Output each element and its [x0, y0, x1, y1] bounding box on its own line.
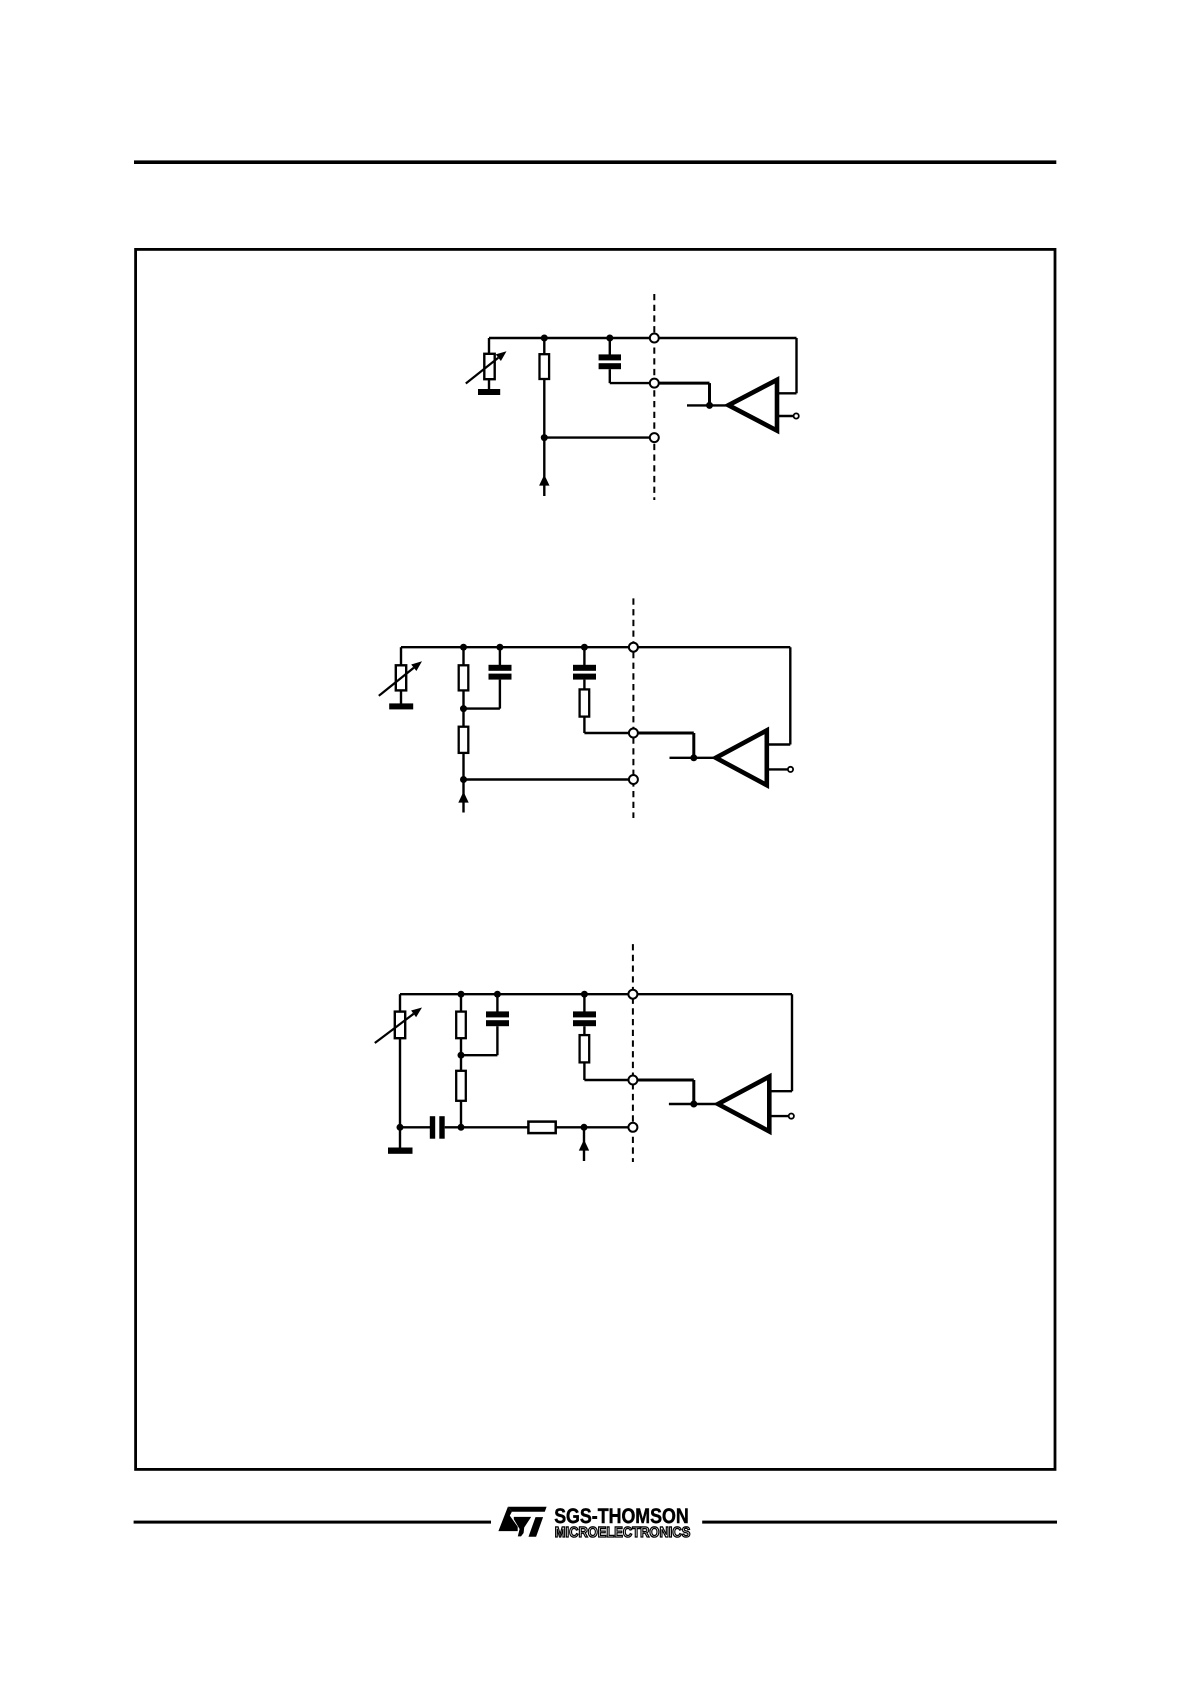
output terminal (circuit 2)	[788, 767, 793, 772]
inverter U2	[716, 730, 767, 785]
resistor R3	[459, 709, 469, 753]
pin 2 (circuit 1 inverter in)	[650, 379, 659, 388]
wire: inverter input stub (circuit 3)	[669, 1103, 718, 1105]
wire: inverter input stub (circuit 2)	[670, 757, 716, 759]
wire: circuit-3 top supply rail	[400, 993, 792, 995]
wire: feedback from rail to inverter output (circuit 2)	[767, 647, 791, 744]
wire: bottom-left node to ground stem	[399, 1127, 401, 1148]
node: rail / C2 junction	[496, 644, 503, 651]
svg-text:MICROELECTRONICS: MICROELECTRONICS	[555, 1525, 691, 1541]
wire: R4 bottom to pin 2 (circuit 2)	[584, 717, 633, 733]
input signal arrow (circuit 1)	[539, 438, 549, 496]
resistor R6	[456, 1055, 466, 1101]
output terminal (circuit 1)	[794, 413, 799, 418]
pin 1 (circuit 3 rail)	[628, 990, 637, 999]
pin 1 (circuit 1 rail)	[650, 334, 659, 343]
IC boundary (dashed, circuit 1)	[653, 294, 655, 500]
IC boundary (dashed, circuit 3)	[632, 944, 634, 1162]
node: R6 / bottom path junction	[458, 1124, 465, 1131]
pin 3 (circuit 3 input)	[628, 1123, 637, 1132]
wire: U1 output stub	[777, 415, 794, 417]
wire: circuit-1 top supply rail	[489, 337, 797, 339]
resistor R4 (series with C3)	[580, 680, 590, 717]
wire: inverter input stub	[687, 404, 729, 406]
inverter U3	[718, 1077, 769, 1132]
inverter U1	[729, 380, 778, 431]
trimmer capacitor CV2 (adjustable, grounded)	[379, 661, 422, 696]
wire: feedback from rail to inverter output (circuit 1)	[777, 338, 797, 393]
node: inverter input junction (circuit 3)	[690, 1101, 697, 1108]
pin 2 (circuit 3 inverter in)	[628, 1076, 637, 1085]
wire: input node to pin 3 (circuit 2)	[464, 778, 634, 780]
node: input arrow junction (circuit 3)	[581, 1124, 588, 1131]
node: R5/C4 mid junction	[458, 1052, 465, 1059]
output terminal (circuit 3)	[789, 1114, 794, 1119]
wire: pin 2 to inverter input (circuit 2)	[633, 733, 693, 758]
wire: C2 bottom to mid node	[464, 680, 500, 709]
wire: R5 bottom to mid node	[460, 1038, 462, 1055]
node: rail / R2 junction	[460, 644, 467, 651]
wire: CV3 to bottom-left node	[399, 1038, 401, 1127]
wire: R3 bottom to input node	[462, 753, 464, 780]
node: junction of rail and C1	[606, 335, 613, 342]
pin 2 (circuit 2 inverter in)	[629, 729, 638, 738]
resistor R8 (horizontal)	[528, 1122, 555, 1134]
node: rail / R5 junction	[458, 991, 465, 998]
trimmer capacitor CV3 (adjustable, in line)	[375, 1008, 422, 1044]
wire: R7 bottom to pin 2 (circuit 3)	[584, 1062, 633, 1080]
ground (circuit 1)	[478, 389, 500, 395]
capacitor C1	[599, 338, 621, 369]
wire: CV1 to ground stem	[488, 379, 490, 390]
node: inverter input junction (circuit 2)	[690, 754, 697, 761]
capacitor C3	[573, 647, 596, 679]
wire: bottom path to R8	[461, 1126, 529, 1128]
capacitor C6 (series, bottom path)	[400, 1116, 461, 1139]
wire: pin 2 to inverter input (circuit 3)	[633, 1080, 694, 1104]
wire: circuit-3 trimmer branch drop	[399, 994, 401, 1012]
pin 3 (circuit 2 input)	[629, 775, 638, 784]
input signal arrow (circuit 3)	[579, 1127, 589, 1161]
resistor R7 (series with C5)	[580, 1026, 590, 1062]
resistor R1	[540, 338, 550, 379]
resistor R2	[459, 647, 469, 690]
node: inverter input junction (circuit 1)	[706, 402, 713, 409]
wire: C4 bottom to mid node	[461, 1026, 497, 1055]
IC boundary (dashed, circuit 2)	[632, 598, 634, 818]
ground (circuit 2)	[389, 703, 413, 709]
capacitor C2	[489, 647, 512, 679]
wire: input node to pin 3	[544, 436, 654, 438]
wire: R1 bottom to input node	[543, 379, 545, 438]
pin 1 (circuit 2 rail)	[629, 643, 638, 652]
wire: pin 2 to inverter input	[654, 383, 709, 405]
input signal arrow (circuit 2)	[458, 780, 468, 813]
node: bottom-left junction (circuit 3)	[397, 1124, 404, 1131]
node: circuit-1 input junction	[541, 434, 548, 441]
node: rail / C4 junction	[494, 991, 501, 998]
node: rail / C5 junction	[581, 991, 588, 998]
wire: circuit-2 trimmer branch drop	[400, 647, 402, 666]
wire: CV2 to ground stem	[400, 690, 402, 704]
node: junction of rail and R1	[541, 335, 548, 342]
SGS-THOMSON logo: ST emblem	[498, 1507, 546, 1537]
node: R2/C2 mid junction	[460, 705, 467, 712]
wire: circuit-1 trimmer branch drop	[488, 338, 490, 355]
wire: circuit-2 top supply rail	[401, 646, 790, 648]
wire: U3 output stub	[769, 1115, 788, 1117]
pin 3 (circuit 1 input)	[650, 433, 659, 442]
wire: C1 bottom to pin 2	[610, 369, 655, 383]
wire: U2 output stub	[767, 768, 788, 770]
node: rail / C3 junction	[581, 644, 588, 651]
wire: R8 to pin 3 (circuit 3)	[556, 1126, 633, 1128]
capacitor C5	[573, 994, 596, 1026]
resistor R5	[456, 994, 466, 1038]
wire: feedback from rail to inverter output (circuit 3)	[769, 994, 792, 1091]
capacitor C4	[486, 994, 509, 1026]
wire: R2 bottom to mid node	[462, 690, 464, 708]
wire: R6 bottom to bottom path	[460, 1101, 462, 1128]
trimmer capacitor CV1 (adjustable, grounded)	[466, 351, 507, 383]
node: circuit-2 input junction	[460, 776, 467, 783]
ground (circuit 3)	[388, 1148, 413, 1154]
